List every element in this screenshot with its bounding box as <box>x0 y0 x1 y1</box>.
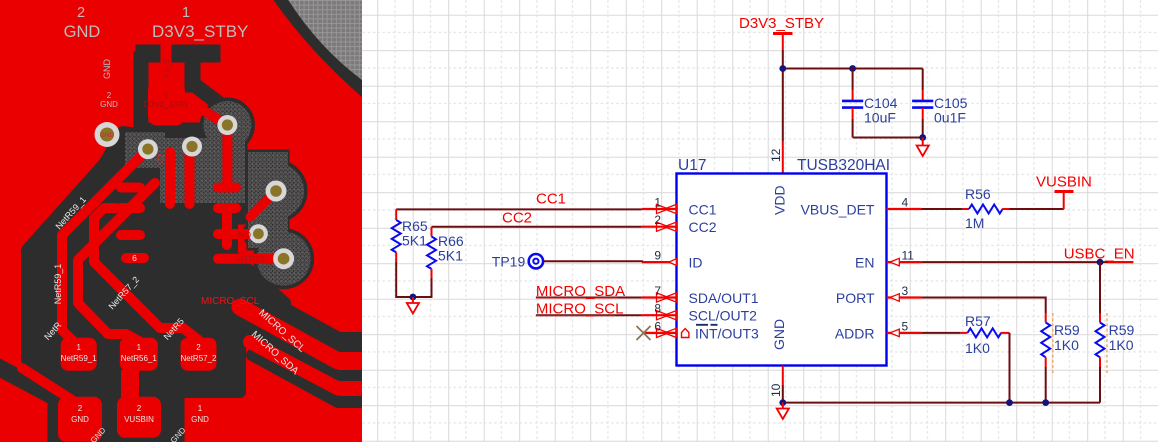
svg-text:GND: GND <box>100 132 115 139</box>
svg-text:2: 2 <box>77 5 85 21</box>
svg-text:6: 6 <box>654 319 661 333</box>
svg-text:7: 7 <box>654 284 661 298</box>
svg-text:D3V3_STBY: D3V3_STBY <box>739 15 824 32</box>
footprint pills right <box>218 183 236 193</box>
svg-text:CC1: CC1 <box>689 202 717 218</box>
svg-text:U17: U17 <box>678 157 706 174</box>
capacitor C105 <box>912 69 968 138</box>
power port D3V3_STBY <box>739 15 824 50</box>
wire VDD horizontal <box>783 68 923 70</box>
svg-text:NetR56_1: NetR56_1 <box>121 354 158 363</box>
svg-text:NetR57_2: NetR57_2 <box>180 354 217 363</box>
pin 12 <box>782 141 784 174</box>
svg-text:TP19: TP19 <box>492 254 526 270</box>
svg-text:1: 1 <box>654 196 661 210</box>
svg-text:NetR59_1: NetR59_1 <box>61 354 98 363</box>
wire cap bottoms <box>853 137 923 139</box>
svg-text:3: 3 <box>902 284 909 298</box>
svg-text:R59: R59 <box>1054 322 1080 338</box>
resistor R56 <box>921 186 1063 231</box>
svg-text:10uF: 10uF <box>864 110 896 126</box>
junction <box>1042 399 1049 406</box>
SCL diagonal stripe <box>240 307 362 361</box>
trace below via V4 <box>222 125 232 183</box>
bottom pads row1 <box>61 338 97 371</box>
bottom pads row2 <box>58 397 102 442</box>
svg-text:GND: GND <box>71 415 89 424</box>
svg-text:5K1: 5K1 <box>438 248 463 264</box>
svg-text:11: 11 <box>902 249 915 263</box>
svg-text:PORT: PORT <box>836 290 875 306</box>
resistor R59 a <box>1041 313 1080 403</box>
pin 4 <box>887 196 922 210</box>
svg-text:1M: 1M <box>965 215 984 231</box>
svg-text:R59: R59 <box>1109 322 1135 338</box>
IC U17 TUSB320HAI <box>677 157 891 366</box>
svg-text:10: 10 <box>769 383 783 397</box>
pin 2 <box>642 213 677 231</box>
svg-text:R57: R57 <box>965 313 991 329</box>
svg-text:D3V3_STBY: D3V3_STBY <box>144 100 190 109</box>
wire CC1 <box>396 191 642 210</box>
svg-text:ID: ID <box>689 255 703 271</box>
svg-text:1K0: 1K0 <box>1109 337 1134 353</box>
wire CC2 <box>432 210 642 227</box>
capacitor C104 <box>842 69 898 138</box>
wire USBC_EN <box>921 246 1134 263</box>
svg-text:2: 2 <box>107 91 112 100</box>
hatched pour patches <box>125 101 311 286</box>
svg-text:D3V3_STBY: D3V3_STBY <box>152 22 248 41</box>
trace V3_S vertical <box>161 44 172 84</box>
wire PORT <box>921 298 1045 314</box>
svg-text:2: 2 <box>78 404 83 413</box>
svg-text:TUSB320HAI: TUSB320HAI <box>797 157 890 174</box>
Schematic panel <box>362 0 1158 442</box>
svg-text:CC2: CC2 <box>689 219 717 235</box>
ground <box>407 297 419 314</box>
junction <box>919 134 926 141</box>
resistor R59 b <box>1096 313 1135 403</box>
svg-text:GND: GND <box>771 319 787 350</box>
svg-text:VDD: VDD <box>772 185 788 215</box>
svg-text:5K1: 5K1 <box>402 233 427 249</box>
svg-text:1K0: 1K0 <box>1054 337 1079 353</box>
wire GND bus <box>783 385 1100 403</box>
svg-text:1K0: 1K0 <box>965 340 990 356</box>
TP19 trace <box>264 254 284 263</box>
hatched pour circle top-right <box>272 0 362 97</box>
pin 6 no-connect <box>637 319 689 340</box>
via stub <box>250 191 276 217</box>
svg-text:1: 1 <box>76 343 81 352</box>
svg-text:MICRO_SCL: MICRO_SCL <box>536 301 624 318</box>
svg-text:5: 5 <box>902 319 909 333</box>
test point TP19 <box>492 254 543 270</box>
pad D3V3_STBY <box>148 82 185 126</box>
svg-text:MICRO_SCL: MICRO_SCL <box>201 296 260 307</box>
svg-text:8: 8 <box>654 302 661 316</box>
svg-text:ADDR: ADDR <box>835 325 875 341</box>
SDA diagonal stripe <box>250 342 362 389</box>
wire MICRO_SCL <box>536 301 642 318</box>
svg-text:1: 1 <box>164 91 169 100</box>
svg-text:1: 1 <box>182 5 190 21</box>
trace from pad down <box>186 100 227 125</box>
svg-text:GND: GND <box>191 415 209 424</box>
power port VUSBIN <box>1036 174 1092 210</box>
svg-text:CC2: CC2 <box>502 210 532 227</box>
resistor R66 <box>427 227 464 278</box>
svg-text:2: 2 <box>196 343 201 352</box>
svg-text:6: 6 <box>132 253 137 263</box>
svg-text:INT/OUT3: INT/OUT3 <box>695 325 759 341</box>
pin 8 <box>642 302 677 320</box>
hook trace 1 <box>62 152 145 348</box>
bottom-left gnd trace <box>22 368 72 400</box>
svg-text:SDA/OUT1: SDA/OUT1 <box>689 290 759 306</box>
wire VDD vertical <box>782 50 784 141</box>
svg-text:EN: EN <box>855 255 874 271</box>
svg-text:1: 1 <box>137 343 142 352</box>
svg-text:NetR59_1: NetR59_1 <box>53 264 63 305</box>
svg-text:GND: GND <box>64 23 101 41</box>
svg-text:2: 2 <box>137 404 142 413</box>
pin 5 <box>887 319 922 336</box>
pin 3 <box>887 284 922 301</box>
svg-text:12: 12 <box>769 148 783 162</box>
footprint pills left <box>121 183 140 193</box>
junction <box>849 65 856 72</box>
svg-text:9: 9 <box>654 249 661 263</box>
svg-text:GND: GND <box>100 100 118 109</box>
svg-text:0u1F: 0u1F <box>934 110 966 126</box>
junction <box>1006 399 1013 406</box>
svg-text:VUSBIN: VUSBIN <box>1036 174 1092 191</box>
neck NetR56_1 to VUSBIN <box>121 370 139 398</box>
junction <box>779 65 786 72</box>
svg-text:ND: ND <box>238 230 251 240</box>
junction <box>779 399 786 406</box>
ground <box>917 138 929 157</box>
resistor R57 <box>921 313 1009 356</box>
red traces <box>22 44 362 400</box>
pin 1 <box>642 196 677 214</box>
ground <box>777 403 789 419</box>
wire R57 down <box>1009 333 1011 403</box>
vias <box>95 115 295 269</box>
svg-text:VUSBIN: VUSBIN <box>124 415 154 424</box>
pin 11 <box>887 249 922 266</box>
svg-text:VBUS_DET: VBUS_DET <box>801 202 875 218</box>
svg-text:V3_S: V3_S <box>162 58 171 78</box>
PCB layout panel <box>0 0 362 442</box>
black keepout shapes <box>0 45 362 442</box>
resistor R65 <box>392 209 428 262</box>
svg-text:1: 1 <box>198 404 203 413</box>
svg-text:4: 4 <box>902 196 909 210</box>
wire ID <box>544 260 642 263</box>
wire R65 bottom <box>396 262 431 297</box>
svg-text:CC1: CC1 <box>536 191 566 208</box>
pin 9 <box>642 249 677 266</box>
wire MICRO_SDA <box>536 283 642 300</box>
trace below via V3 <box>185 150 195 204</box>
svg-text:2: 2 <box>654 213 661 227</box>
PCB texts <box>42 5 307 442</box>
svg-text:R56: R56 <box>965 186 991 202</box>
copper plane <box>0 0 362 442</box>
svg-text:SCL/OUT2: SCL/OUT2 <box>689 308 758 324</box>
hook trace 2 <box>78 183 155 341</box>
junction <box>410 294 417 301</box>
svg-text:etTP19_: etTP19_ <box>236 255 271 265</box>
hook trace 3 <box>94 208 199 340</box>
wire EN vertical <box>1099 262 1101 313</box>
pin 10 <box>782 366 784 386</box>
pin 7 <box>642 284 677 302</box>
svg-text:GND: GND <box>102 59 112 80</box>
junction <box>1097 259 1104 266</box>
